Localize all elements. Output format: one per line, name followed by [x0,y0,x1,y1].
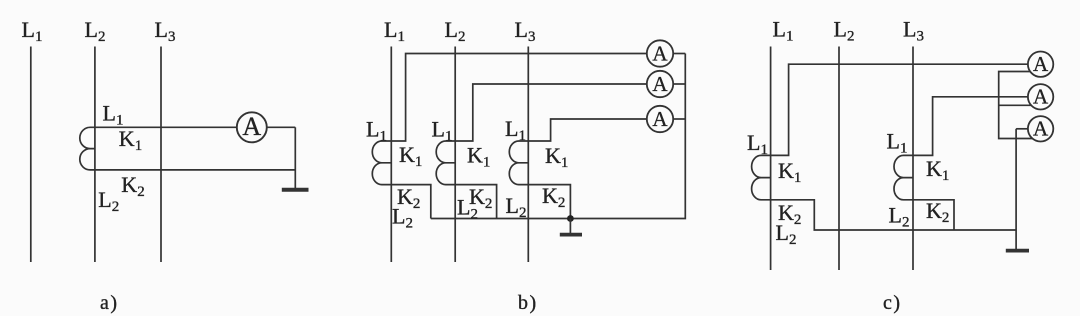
ammeter PA (a) [237,112,267,142]
wire ammeter to right vertical (a) [267,126,296,128]
ground (a) [282,188,309,192]
wire PA3 to return (c) [1016,128,1028,130]
wire PA2 out to junction (c) [999,104,1031,106]
svg-text:b): b) [518,292,538,314]
svg-text:c): c) [883,292,902,314]
return vertical to ground (c) [1015,129,1017,250]
line L2 (c) [838,47,840,271]
svg-text:K1: K1 [926,156,949,184]
wire T3 K1 to ammeter PA3 (b) [528,119,647,141]
line L3 (c) [912,47,914,271]
svg-text:L2: L2 [445,17,466,45]
svg-text:A: A [652,41,668,65]
wire T3 K2 to neutral bus (b) [528,185,570,219]
line L2 (b) [454,47,456,263]
svg-text:L3: L3 [903,17,924,45]
svg-text:K1: K1 [545,143,568,171]
svg-text:L1: L1 [747,130,768,158]
current transformer winding (a) [80,127,95,170]
ammeter PA1 (b) [647,40,673,66]
current transformer winding T1 (b) [372,141,391,185]
line L2 (a) [94,47,96,263]
svg-text:L3: L3 [155,17,176,45]
wire K2 return (a) [95,169,295,171]
wire PA3 to common return (b) [673,118,685,120]
svg-text:L1: L1 [366,117,387,145]
ground (b) [560,233,582,237]
current transformer winding T1 (c) [752,155,771,199]
ammeter PA3 (b) [647,106,673,132]
svg-text:L1: L1 [22,17,43,45]
svg-text:L2: L2 [85,17,106,45]
current transformer winding T2 (b) [436,141,455,185]
wire PA2 to common return (b) [673,83,685,85]
wire T1 K1 to ammeter PA1 (b) [391,54,647,142]
ground (c) [1006,249,1029,253]
current transformer winding T3 (c) [894,155,913,199]
svg-text:L2: L2 [889,203,910,231]
line L3 (b) [527,47,529,263]
wire T2 K2 to neutral bus (b) [455,185,496,219]
svg-text:K1: K1 [467,143,490,171]
wire K1 to ammeter (a) [95,126,237,128]
wire T1 K1 to ammeter PA1 (c) [771,64,1028,155]
wire right vertical to ground node (a) [294,127,296,189]
svg-text:K2: K2 [926,198,949,226]
common junction wire PA1 PA2 to PA3 (c) [999,72,1033,139]
ammeter PA2 (b) [647,71,673,97]
wire T1 K2 to neutral bus (b) [391,185,431,219]
line L1 (b) [390,47,392,263]
wire T2 K1 to ammeter PA2 (b) [455,84,647,141]
svg-text:A: A [652,72,668,96]
current transformer winding T3 (b) [509,141,528,185]
svg-text:L1: L1 [103,100,124,128]
svg-text:K1: K1 [119,126,142,154]
svg-text:L2: L2 [506,193,527,221]
junction node (b) [567,215,574,222]
svg-text:a): a) [100,292,119,314]
ground stem (b) [569,219,571,234]
svg-text:L1: L1 [505,116,526,144]
ammeter PA1 (c) [1028,51,1053,76]
svg-text:L2: L2 [834,17,855,45]
wire T1 K2 to neutral bus (c) [771,200,1017,230]
svg-text:A: A [1033,52,1049,76]
line L1 (c) [770,47,772,271]
svg-text:A: A [1033,84,1049,108]
svg-text:A: A [242,112,261,141]
line L3 (a) [160,47,162,263]
svg-text:K2: K2 [121,172,144,200]
svg-text:L3: L3 [515,17,536,45]
svg-text:L1: L1 [384,17,405,45]
svg-text:A: A [1033,116,1049,140]
svg-text:A: A [652,107,668,131]
ammeter PA2 (c) [1028,84,1053,109]
svg-text:K2: K2 [542,183,565,211]
line L1 (a) [30,47,32,263]
svg-text:K1: K1 [778,158,801,186]
wire T3 K2 to neutral bus (c) [913,200,954,230]
svg-text:L1: L1 [773,17,794,45]
svg-text:L2: L2 [98,187,119,215]
svg-text:K1: K1 [399,142,422,170]
svg-text:L1: L1 [887,129,908,157]
wire PA1 to common return (b) [673,53,685,55]
wire T3 K1 to ammeter PA2 (c) [913,97,1028,156]
ammeter PA3 (c) [1028,116,1053,141]
common return wire (b) [431,54,686,219]
svg-text:L1: L1 [432,117,453,145]
